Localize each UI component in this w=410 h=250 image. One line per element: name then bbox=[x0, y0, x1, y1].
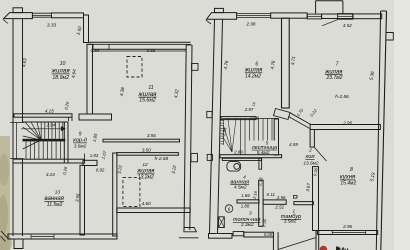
chimney block right plan bbox=[207, 13, 237, 20]
floating bottom line between plans bbox=[179, 237, 199, 239]
svg-text:хол: хол bbox=[304, 154, 315, 160]
wall below stairs / room 13 north wall bbox=[13, 159, 85, 163]
svg-text:1.83: 1.83 bbox=[90, 153, 99, 158]
east wall tab bbox=[386, 33, 394, 41]
svg-text:12: 12 bbox=[142, 162, 148, 168]
room7/kitchen-hall wall bbox=[310, 125, 380, 130]
right plan east wall bbox=[381, 11, 387, 250]
svg-text:3.56: 3.56 bbox=[147, 133, 156, 138]
room 13 east wall bbox=[80, 165, 85, 235]
wall 6/7 foot slab bbox=[274, 109, 291, 120]
svg-text:6: 6 bbox=[228, 207, 231, 212]
left plan east wall bbox=[184, 45, 186, 230]
north window box 2 bbox=[307, 14, 321, 19]
tambour side walls down bbox=[272, 232, 274, 250]
svg-text:8: 8 bbox=[350, 167, 353, 173]
kitchen south wall with window 2.96 bbox=[317, 231, 377, 235]
wall cut tick below chimney bbox=[3, 20, 8, 24]
room6 south boundary wall bbox=[221, 117, 256, 120]
svg-text:4.5м2: 4.5м2 bbox=[234, 185, 247, 191]
stub below south wall bbox=[14, 239, 23, 249]
svg-text:0.11: 0.11 bbox=[267, 192, 276, 197]
toilet bathroom 4 bbox=[227, 162, 241, 172]
rooms 6/7 dividing wall bbox=[282, 18, 290, 108]
svg-text:h-2.86: h-2.86 bbox=[335, 94, 349, 100]
window box north 3 bbox=[338, 14, 353, 20]
partition foot bar bbox=[79, 114, 112, 120]
hall south wall east part bbox=[294, 202, 313, 205]
svg-text:7: 7 bbox=[336, 62, 339, 68]
bathroom south wall bbox=[237, 200, 259, 203]
north wall far east bbox=[353, 14, 382, 19]
svg-text:4.15: 4.15 bbox=[45, 109, 54, 114]
svg-text:15.4м2: 15.4м2 bbox=[340, 181, 356, 187]
svg-text:23.7м2: 23.7м2 bbox=[326, 75, 343, 81]
small post near door bbox=[293, 196, 297, 199]
kitchen west wall bbox=[313, 167, 319, 231]
north wall segment east bbox=[322, 14, 353, 19]
lighter paper margin right bbox=[394, 0, 410, 250]
svg-text:13.6м2: 13.6м2 bbox=[303, 160, 319, 166]
east wall angled foot bbox=[184, 228, 197, 232]
room 10 east wall bbox=[87, 44, 93, 114]
svg-text:3.24: 3.24 bbox=[46, 172, 55, 177]
svg-text:18.9м2: 18.9м2 bbox=[52, 75, 69, 81]
svg-text:0.92: 0.92 bbox=[96, 167, 105, 172]
svg-text:3.33: 3.33 bbox=[47, 22, 57, 28]
svg-text:0.84: 0.84 bbox=[91, 48, 100, 53]
kitchen west wall lower to edge bbox=[315, 231, 317, 250]
north window 2.98 bbox=[237, 13, 271, 15]
room 12 west wall bbox=[113, 153, 117, 236]
north window room 10, dim 3.33 bbox=[32, 12, 51, 14]
wall C room12 north bbox=[117, 153, 179, 156]
svg-text:2.98: 2.98 bbox=[246, 21, 256, 26]
corridor bar B and dim 0.92 bbox=[83, 160, 97, 165]
svg-text:0.05: 0.05 bbox=[264, 232, 273, 237]
scan corner mark bottom-left bbox=[1, 231, 9, 239]
svg-text:3.6м2: 3.6м2 bbox=[74, 143, 87, 149]
svg-text:2.94: 2.94 bbox=[46, 123, 56, 128]
svg-text:3.5м2: 3.5м2 bbox=[284, 218, 297, 224]
red stamp bottom bbox=[320, 246, 328, 250]
svg-text:лестница: лестница bbox=[251, 145, 277, 151]
svg-text:2.97: 2.97 bbox=[244, 107, 254, 112]
west wall tab 1 bbox=[207, 111, 212, 117]
svg-text:10: 10 bbox=[60, 61, 66, 67]
svg-text:4.52: 4.52 bbox=[343, 23, 352, 28]
room 12 south wall bbox=[117, 208, 190, 213]
porch diagonal bbox=[278, 238, 316, 250]
scan stain left edge bbox=[0, 136, 10, 250]
room 13 south wall with window bbox=[8, 234, 117, 239]
north wall solid bar bbox=[271, 13, 308, 18]
radiator hatch box west wall bbox=[219, 217, 225, 228]
svg-text:14.2м2: 14.2м2 bbox=[245, 74, 261, 80]
diagonal partition to hall corner bbox=[290, 113, 311, 125]
wall below stairs bbox=[220, 155, 282, 158]
west wall lower (room 13) bbox=[22, 159, 24, 236]
west wall tab 2 bbox=[207, 154, 212, 160]
bathroom/tambour wall bbox=[259, 180, 263, 226]
svg-text:6: 6 bbox=[255, 61, 258, 67]
dim 4.52 with leader bbox=[322, 19, 338, 25]
circled apartment number 6 bbox=[225, 205, 233, 213]
svg-text:2.89: 2.89 bbox=[233, 150, 243, 155]
svg-text:h-2.68: h-2.68 bbox=[155, 156, 169, 162]
room 12 dashed wardrobe bbox=[123, 178, 140, 207]
svg-text:3.50: 3.50 bbox=[142, 147, 151, 152]
svg-text:2.3м2: 2.3м2 bbox=[240, 222, 254, 228]
svg-text:Мн: Мн bbox=[338, 246, 349, 250]
svg-text:3: 3 bbox=[249, 210, 252, 216]
svg-text:ванная: ванная bbox=[230, 179, 249, 185]
wall A room11 south bbox=[103, 139, 180, 142]
west wall upper (room 10) bbox=[12, 19, 14, 236]
svg-text:13: 13 bbox=[55, 189, 61, 195]
svg-text:4.60: 4.60 bbox=[142, 201, 151, 206]
kitchen door leaf bbox=[314, 147, 327, 161]
svg-text:4.59: 4.59 bbox=[289, 142, 298, 147]
stairs arrow and dim 2.94 bbox=[21, 128, 62, 130]
porch step box bbox=[233, 232, 244, 236]
north wall solid segment bbox=[52, 13, 84, 18]
door jamb below stairs bbox=[259, 158, 262, 169]
svg-text:1.88: 1.88 bbox=[241, 203, 250, 208]
chimney block top-left bbox=[4, 13, 33, 19]
right plan west wall bbox=[210, 19, 215, 233]
hall south wall west part bbox=[263, 200, 286, 204]
svg-text:1: 1 bbox=[293, 208, 296, 213]
stairs left plan bbox=[23, 121, 65, 123]
west wall hatched window at stairs bbox=[220, 120, 223, 122]
north wall step down, dim 1.60 bbox=[84, 15, 89, 43]
svg-text:2.56: 2.56 bbox=[276, 195, 286, 200]
svg-text:жилая: жилая bbox=[51, 68, 71, 75]
east wall tab upper bbox=[192, 64, 198, 71]
svg-text:1.86: 1.86 bbox=[241, 193, 250, 198]
svg-text:11.5м2: 11.5м2 bbox=[47, 202, 63, 208]
svg-text:2.96: 2.96 bbox=[342, 224, 352, 229]
svg-text:15.6м2: 15.6м2 bbox=[139, 98, 156, 104]
east wall tab lower bbox=[191, 153, 198, 161]
svg-text:кор-д: кор-д bbox=[73, 138, 87, 144]
svg-text:2.52: 2.52 bbox=[274, 204, 284, 209]
svg-text:16: 16 bbox=[252, 102, 257, 107]
terrace outline to top edge bbox=[315, 1, 317, 14]
room 11 dashed wardrobe bbox=[127, 57, 142, 78]
wall cut tick right chimney bbox=[206, 20, 211, 24]
kitchen door post bbox=[310, 130, 314, 148]
room 10 south wall, dims 4.15 0.26 bbox=[14, 114, 72, 117]
svg-text:2: 2 bbox=[308, 148, 312, 154]
west wall window at stairs bbox=[16, 123, 18, 159]
svg-text:3.56: 3.56 bbox=[147, 48, 156, 53]
north wall east part, dim 0.84 bbox=[88, 41, 191, 43]
threshold bar tambour bbox=[244, 232, 274, 237]
bottom wall west part bbox=[209, 234, 233, 239]
stairs room 5 label bbox=[249, 141, 278, 155]
stairs right plan bbox=[222, 117, 279, 119]
